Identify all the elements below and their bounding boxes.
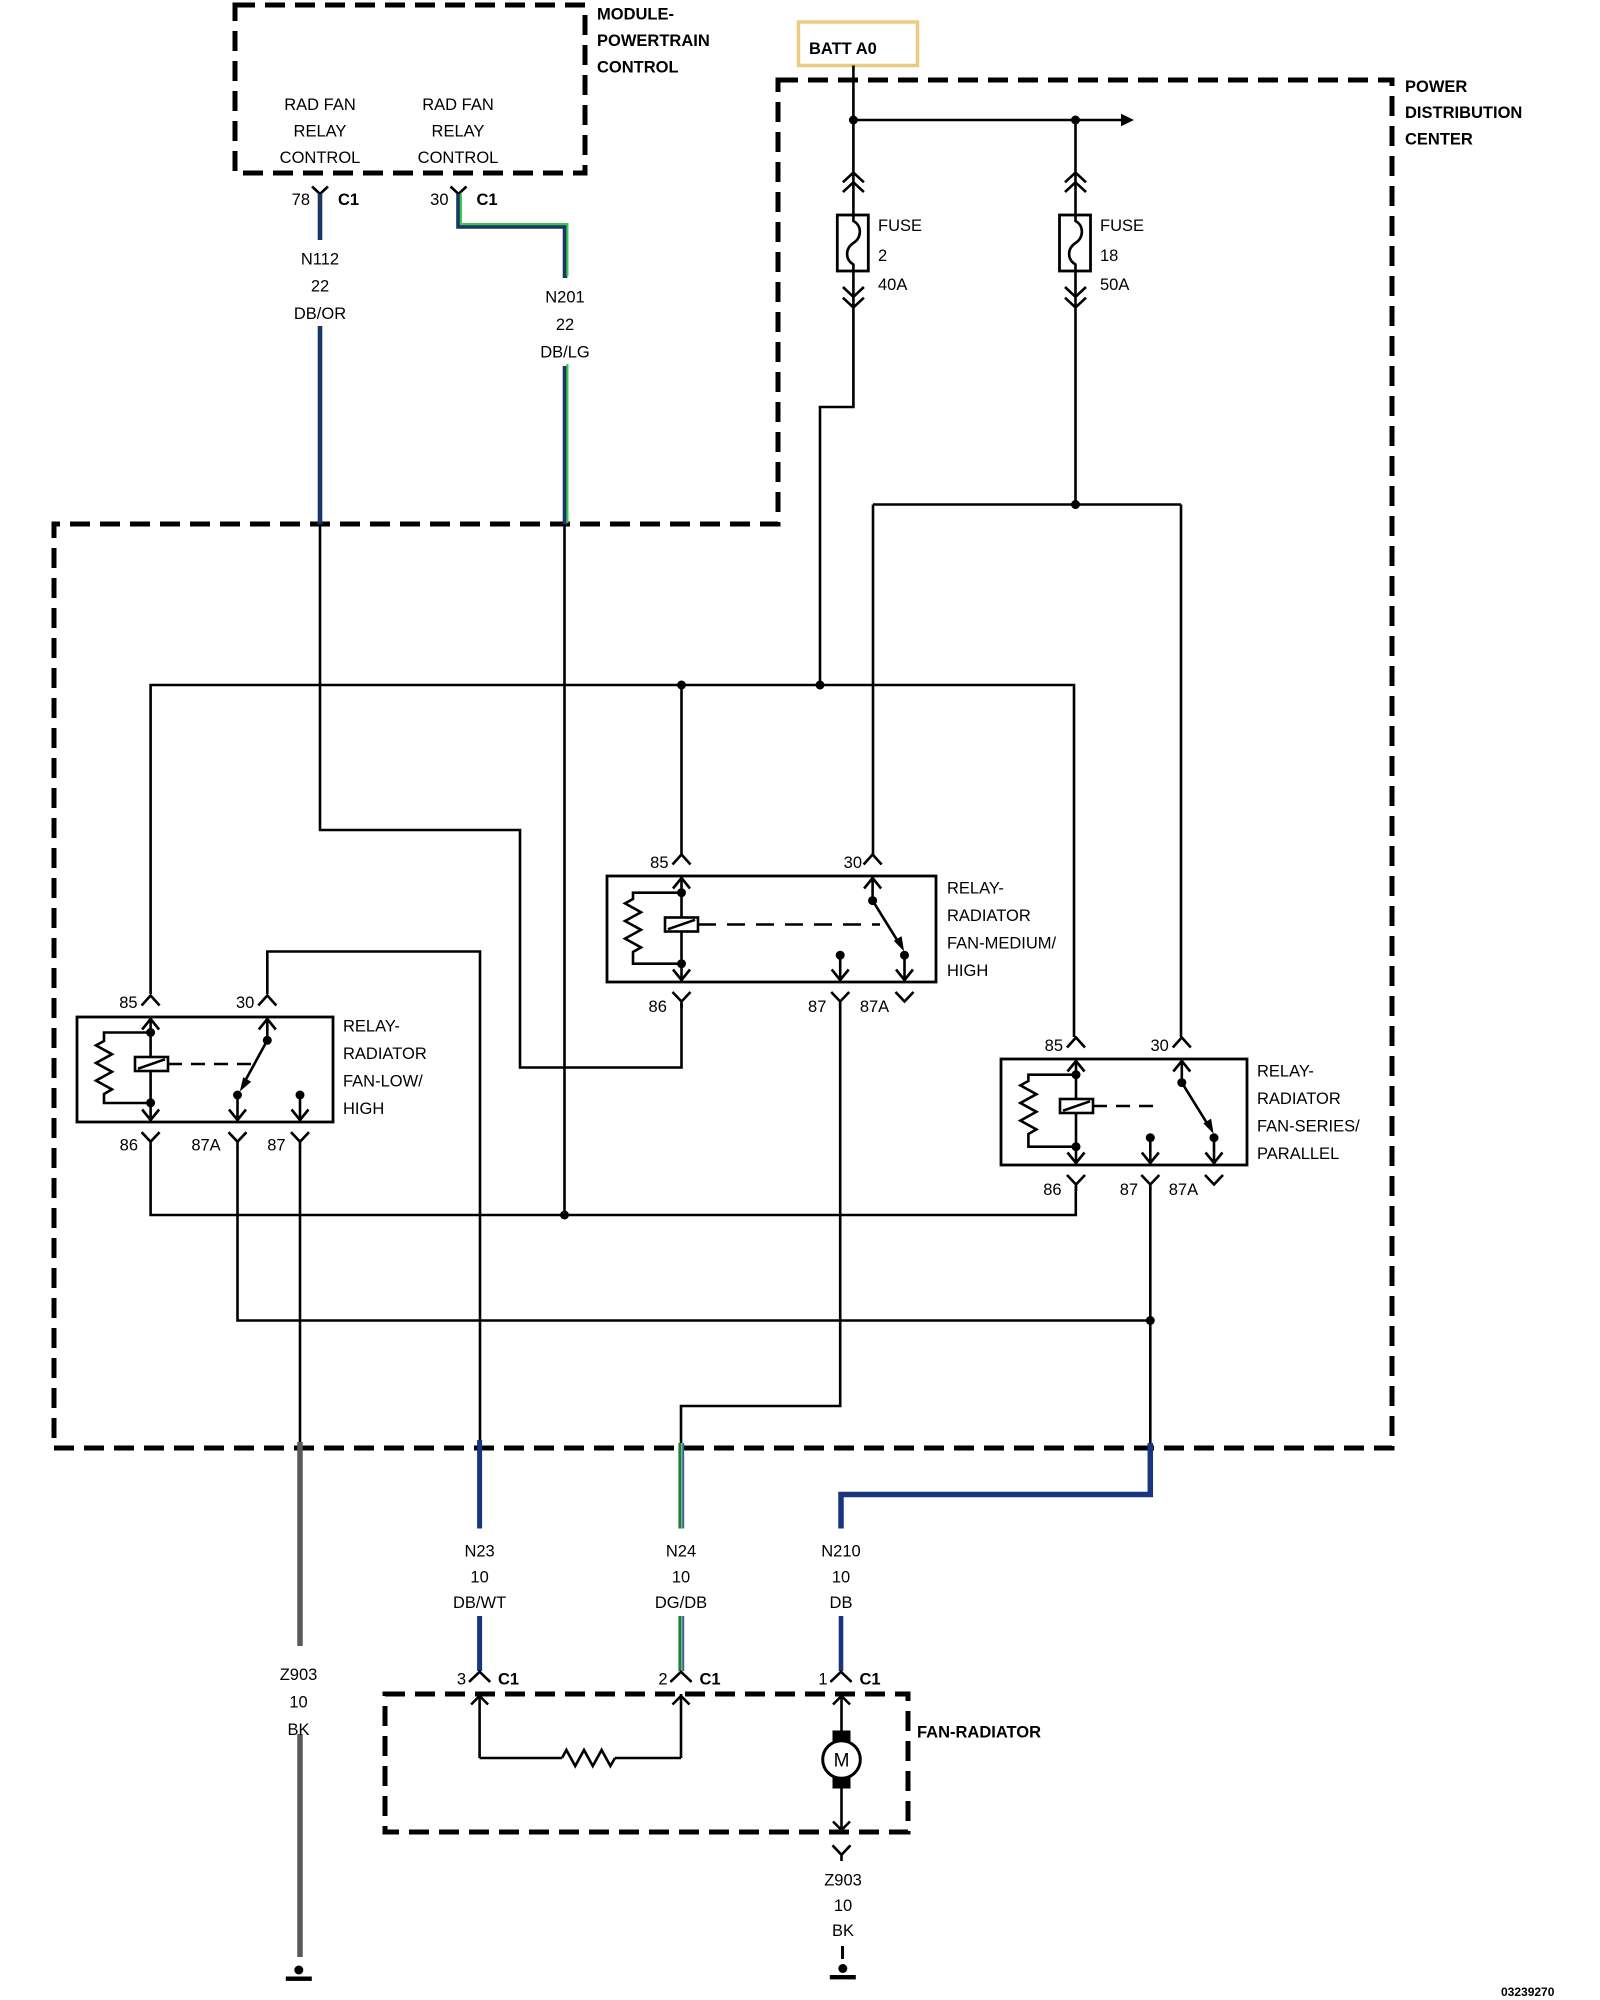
connector: in-line chevrons above fuse 2 — [843, 173, 864, 193]
pin 30 of K1 (connector chevron + label) — [236, 994, 276, 1012]
svg-text:N24: N24 — [666, 1542, 696, 1560]
svg-text:10: 10 — [834, 1897, 852, 1915]
pin 87 of K1 (connector chevron + label) — [267, 1132, 309, 1154]
wire N201 (PCM 30 to relay 86 bus), colored segment — [459, 194, 568, 525]
svg-text:CONTROL: CONTROL — [418, 149, 499, 167]
pin 86 of K2 (connector chevron + label) — [649, 992, 691, 1016]
wire: series relay 87 down to PDC edge — [1149, 1186, 1152, 1444]
label: N24 10 DG/DB — [655, 1542, 707, 1612]
pin 85 of K3 (connector chevron + label) — [1045, 1037, 1085, 1055]
svg-text:2: 2 — [878, 247, 887, 265]
node: K1 coil bottom dot — [146, 1098, 155, 1107]
svg-text:78: 78 — [292, 191, 310, 209]
node: junction dot fuse18/bus505 — [1071, 500, 1080, 509]
label: Z903 10 BK (left) — [280, 1666, 318, 1739]
node: junction dot bus685/medium85 — [677, 681, 686, 690]
node: K1 87A contact dot — [233, 1091, 242, 1100]
svg-text:10: 10 — [832, 1569, 850, 1587]
wire Z903 (low relay 87 to ground), gray segment — [297, 1442, 303, 1957]
fuse F2: 40A — [837, 215, 922, 294]
svg-text:18: 18 — [1100, 247, 1118, 265]
svg-text:C1: C1 — [700, 1671, 721, 1689]
wire N210 lower colored segment — [839, 1616, 844, 1671]
coil vertical of K1 — [149, 1017, 152, 1122]
svg-text:RAD FAN: RAD FAN — [422, 96, 494, 114]
svg-text:86: 86 — [1043, 1181, 1061, 1199]
pin 30 stub inside K2 — [871, 876, 874, 901]
svg-text:DISTRIBUTION: DISTRIBUTION — [1405, 104, 1522, 122]
svg-text:RELAY: RELAY — [432, 122, 485, 140]
pin 87 stub of K3 — [1149, 1138, 1152, 1165]
label: RAD FAN RELAY CONTROL (pin 30 function) — [418, 96, 499, 167]
pin 87A arrow at K2 box edge — [896, 970, 913, 981]
resistor in parallel with K2 coil — [625, 893, 682, 964]
svg-text:C1: C1 — [477, 191, 498, 209]
svg-text:RELAY: RELAY — [294, 122, 347, 140]
svg-text:CENTER: CENTER — [1405, 131, 1473, 149]
node: K3 common dot — [1177, 1078, 1186, 1087]
wire: battery feed vertical from BATT A0 to fuse 2 — [852, 66, 855, 216]
wire: fuse 18 drop from battery feed — [1074, 120, 1077, 215]
svg-text:Z903: Z903 — [824, 1871, 862, 1889]
svg-text:87A: 87A — [1169, 1181, 1198, 1199]
svg-text:DG/DB: DG/DB — [655, 1594, 707, 1612]
svg-text:RADIATOR: RADIATOR — [947, 907, 1031, 925]
module U1: powertrain control module dashed box — [235, 5, 585, 173]
switch arm of K2 (30 to 87A) — [873, 901, 905, 952]
pin 86 of K3 (connector chevron + label) — [1043, 1175, 1085, 1199]
svg-text:40A: 40A — [878, 276, 907, 294]
pin 30 of K3 (connector chevron + label) — [1150, 1037, 1190, 1055]
label: N112 22 DB/OR — [294, 251, 346, 324]
wire: low relay 87A over to series relay 87 (y=1320) — [238, 1147, 1151, 1321]
pin 85 arrow at K3 box edge — [1068, 1061, 1085, 1072]
svg-text:PARALLEL: PARALLEL — [1257, 1145, 1339, 1163]
svg-text:50A: 50A — [1100, 276, 1129, 294]
svg-text:85: 85 — [1045, 1037, 1063, 1055]
node: K3 coil bottom dot — [1072, 1142, 1081, 1151]
svg-text:C1: C1 — [338, 191, 359, 209]
pin 85 arrow at K1 box edge — [142, 1019, 159, 1030]
wire: coil feed bus y=685 (fuse 2 to relay 85 pins) — [151, 685, 1074, 1037]
node: junction dot N201/86-bus — [560, 1211, 569, 1220]
svg-text:85: 85 — [650, 854, 668, 872]
wire: medium relay 87 down-left to N24 — [681, 1003, 840, 1443]
svg-text:RELAY-: RELAY- — [947, 880, 1004, 898]
dashed actuator link of K3 — [1093, 1105, 1160, 1108]
pin 86 of K1 (connector chevron + label) — [120, 1132, 160, 1154]
coil vertical of K2 — [680, 876, 683, 982]
label: RELAY-RADIATOR FAN-SERIES/PARALLEL — [1257, 1063, 1360, 1164]
pin 87A stub of K2 — [903, 955, 906, 982]
switch arm of K1 (30 to 87A) — [240, 1040, 267, 1091]
node: junction dot bus685/fuse2 — [816, 681, 825, 690]
pin 86 arrow at K3 box edge — [1068, 1153, 1085, 1164]
svg-text:BATT A0: BATT A0 — [809, 40, 877, 58]
svg-text:N112: N112 — [301, 251, 339, 269]
ground G1 (left) — [286, 1966, 312, 1981]
svg-text:87: 87 — [808, 998, 826, 1016]
svg-text:HIGH: HIGH — [947, 962, 988, 980]
svg-text:POWER: POWER — [1405, 78, 1467, 96]
pin 87A arrow at K3 box edge — [1206, 1153, 1223, 1164]
connector below fan motor — [833, 1845, 851, 1861]
node: K1 common dot — [263, 1036, 272, 1045]
coil (winding box) of K2 — [665, 918, 698, 932]
node: junction dot 87A-line / series 87 — [1146, 1316, 1155, 1325]
wire N210 (series relay 87 / low 87A to fan pin 1), thick colored segment — [841, 1443, 1150, 1529]
svg-text:MODULE-: MODULE- — [597, 6, 674, 24]
svg-text:RADIATOR: RADIATOR — [1257, 1090, 1341, 1108]
svg-text:10: 10 — [470, 1569, 488, 1587]
node: K2 87 contact dot — [836, 951, 845, 960]
coil vertical of K3 — [1075, 1059, 1078, 1165]
pin 86 arrow at K2 box edge — [673, 970, 690, 981]
pin 87 stub of K2 — [839, 955, 842, 982]
node: K1 87 contact dot — [296, 1091, 305, 1100]
relay K2: RELAY-RADIATOR FAN-MEDIUM/HIGH box — [607, 876, 936, 982]
wire: N201 continuation inside PDC down to 86 bus — [563, 524, 566, 1215]
svg-text:CONTROL: CONTROL — [280, 149, 361, 167]
pin 87A of K2 (connector chevron, unconnected) — [860, 992, 914, 1016]
wire: fan internal horizontal to resistor — [480, 1757, 562, 1760]
wire: dashed stub to ground G2 — [841, 1946, 844, 1959]
pin 30 arrow at K2 box edge — [864, 878, 881, 889]
svg-text:POWERTRAIN: POWERTRAIN — [597, 32, 710, 50]
svg-text:HIGH: HIGH — [343, 1100, 384, 1118]
svg-text:N210: N210 — [821, 1542, 860, 1560]
node: K3 87 contact dot — [1146, 1133, 1155, 1142]
dashed actuator link of K1 — [168, 1063, 256, 1066]
pin 87 arrow at K1 box edge — [292, 1110, 309, 1121]
svg-text:2: 2 — [658, 1671, 667, 1689]
svg-text:86: 86 — [120, 1137, 138, 1155]
node: junction dot at battery feed / fuse 18 — [1071, 116, 1080, 125]
ground G2 (fan motor) — [830, 1964, 856, 1979]
svg-text:10: 10 — [672, 1569, 690, 1587]
svg-text:30: 30 — [430, 191, 448, 209]
pin 87A stub of K3 — [1213, 1138, 1216, 1165]
pin 86 arrow at K1 box edge — [142, 1110, 159, 1121]
svg-text:DB/WT: DB/WT — [453, 1594, 506, 1612]
svg-text:87: 87 — [1120, 1181, 1138, 1199]
wire: fan pin 2 internal riser with arrow — [673, 1694, 690, 1758]
pin 30 C1 connector of PCM — [430, 187, 497, 210]
pin 87A of K1 (connector chevron + label) — [191, 1132, 246, 1154]
pin 30 arrow at K1 box edge — [259, 1019, 276, 1030]
svg-text:DB: DB — [830, 1594, 853, 1612]
svg-text:DB/LG: DB/LG — [540, 343, 590, 361]
resistor in parallel with K1 coil — [96, 1033, 151, 1104]
resistor R1 (fan speed resistor) — [562, 1750, 615, 1766]
label: RAD FAN RELAY CONTROL (pin 78 function) — [280, 96, 361, 167]
pin 87A arrow at K1 box edge — [229, 1110, 246, 1121]
pin 30 stub inside K1 — [266, 1017, 269, 1040]
svg-text:RAD FAN: RAD FAN — [284, 96, 356, 114]
switch arm of K3 (30 to 87A) — [1182, 1083, 1214, 1134]
svg-text:87A: 87A — [191, 1137, 220, 1155]
svg-text:N23: N23 — [464, 1542, 494, 1560]
svg-text:DB/OR: DB/OR — [294, 305, 346, 323]
label: RELAY-RADIATOR FAN-LOW/HIGH — [343, 1018, 427, 1119]
wire: fuse 18 output down to contact bus — [1074, 271, 1077, 505]
label: MODULE-POWERTRAIN CONTROL — [597, 6, 710, 77]
pin 30 of K2 (connector chevron + label) — [844, 854, 882, 872]
wire: fan pin 3 internal drop with arrow — [471, 1694, 488, 1758]
wire N24 lower colored segment — [680, 1616, 683, 1671]
pin 30 stub inside K3 — [1181, 1059, 1184, 1083]
svg-text:FUSE: FUSE — [878, 217, 922, 235]
svg-text:FUSE: FUSE — [1100, 217, 1144, 235]
node BATT A0 feed box — [799, 22, 918, 66]
relay K1: RELAY-RADIATOR FAN-LOW/HIGH box — [77, 1017, 333, 1122]
pin 30 arrow at K3 box edge — [1173, 1061, 1190, 1072]
node: K2 87A contact dot — [900, 951, 909, 960]
resistor in parallel with K3 coil — [1020, 1075, 1076, 1147]
svg-text:22: 22 — [556, 316, 574, 334]
svg-text:85: 85 — [119, 994, 137, 1012]
wire: N112 continuation inside PDC to medium relay pin 86 — [320, 524, 682, 1068]
svg-text:10: 10 — [289, 1694, 307, 1712]
pin 87 arrow at K3 box edge — [1142, 1153, 1159, 1164]
svg-text:87: 87 — [267, 1137, 285, 1155]
wire N23 (low relay 30 to fan pin 3), upper colored segment — [477, 1440, 482, 1529]
pin 87 arrow at K2 box edge — [832, 970, 849, 981]
fuse F18: 50A — [1060, 215, 1145, 294]
label: RELAY-RADIATOR FAN-MEDIUM/HIGH — [947, 880, 1056, 981]
svg-text:03239270: 03239270 — [1501, 1985, 1555, 1999]
pin 87 of K2 (connector chevron + label) — [808, 992, 849, 1016]
label: N201 22 DB/LG — [540, 288, 590, 361]
pin 87A stub of K1 — [236, 1095, 239, 1122]
pin 3 C1 connector of fan — [457, 1671, 519, 1689]
motor M1: fan motor — [823, 1694, 861, 1832]
wire: low relay 30 up-over-down to N23 — [267, 952, 480, 1444]
svg-text:BK: BK — [832, 1922, 854, 1940]
wire: contact feed bus y=505 (fuse 18 to relay 30 pins) — [873, 505, 1181, 1038]
wire: branch bus685 down to relay medium 85 — [680, 685, 683, 856]
label: POWER DISTRIBUTION CENTER — [1405, 78, 1522, 149]
svg-text:86: 86 — [649, 998, 667, 1016]
node: junction dot at battery feed / fuse 2 — [849, 116, 858, 125]
node: K2 coil top dot — [677, 888, 686, 897]
dashed actuator link of K2 — [698, 923, 880, 926]
svg-text:Z903: Z903 — [280, 1666, 318, 1684]
svg-text:22: 22 — [311, 278, 329, 296]
pin 85 arrow at K2 box edge — [673, 878, 690, 889]
coil (winding box) of K3 — [1060, 1099, 1093, 1113]
wire N24 (medium relay 87 to fan pin 2), upper colored segment — [680, 1443, 683, 1529]
svg-text:RADIATOR: RADIATOR — [343, 1045, 427, 1063]
wire: fuse 2 output down-left to coil bus — [820, 271, 853, 685]
coil (winding box) of K1 — [135, 1057, 168, 1071]
pin 1 C1 connector of fan — [818, 1671, 880, 1689]
svg-text:30: 30 — [236, 994, 254, 1012]
relay K3: RELAY-RADIATOR FAN-SERIES/PARALLEL box — [1001, 1059, 1247, 1165]
label: N210 10 DB — [821, 1542, 860, 1612]
node: K2 coil bottom dot — [677, 959, 686, 968]
svg-text:1: 1 — [818, 1671, 827, 1689]
svg-text:C1: C1 — [498, 1671, 519, 1689]
wire N112 (PCM 78 to medium relay 86), colored segment — [318, 194, 323, 525]
svg-text:C1: C1 — [860, 1671, 881, 1689]
svg-text:87A: 87A — [860, 998, 889, 1016]
label: N23 10 DB/WT — [453, 1542, 506, 1612]
wire: relay 86 bus y=1215 (low relay 86 to series relay 86) — [151, 1147, 1076, 1215]
pin 85 of K2 (connector chevron + label) — [650, 854, 690, 872]
pin 87A of K3 (connector chevron, unconnected) — [1169, 1175, 1223, 1199]
connector: in-line chevrons below fuse 18 — [1065, 287, 1086, 308]
pin 2 C1 connector of fan — [658, 1671, 720, 1689]
connector: in-line chevrons above fuse 18 — [1065, 173, 1086, 193]
svg-text:30: 30 — [1150, 1037, 1168, 1055]
node: K2 common dot — [868, 896, 877, 905]
pin 78 C1 connector of PCM — [292, 187, 359, 210]
wire: low relay 87 down to PDC edge — [299, 1147, 302, 1443]
pin 87 of K3 (connector chevron + label) — [1120, 1175, 1160, 1199]
svg-text:FAN-RADIATOR: FAN-RADIATOR — [917, 1724, 1041, 1742]
svg-text:BK: BK — [287, 1721, 309, 1739]
svg-text:RELAY-: RELAY- — [343, 1018, 400, 1036]
node: K3 87A contact dot — [1210, 1133, 1219, 1142]
node: K1 coil top dot — [146, 1028, 155, 1037]
wire: resistor to fan pin 2 riser — [615, 1757, 681, 1760]
svg-text:FAN-SERIES/: FAN-SERIES/ — [1257, 1118, 1360, 1136]
pin 85 of K1 (connector chevron + label) — [119, 994, 159, 1012]
svg-text:3: 3 — [457, 1671, 466, 1689]
wire N23 lower colored segment — [477, 1616, 482, 1671]
power distribution center dashed border (L-shape) — [54, 80, 1392, 1448]
svg-text:FAN-LOW/: FAN-LOW/ — [343, 1073, 423, 1091]
wire: battery feed horizontal with arrow — [853, 114, 1134, 126]
label: Z903 10 BK (right) — [824, 1871, 862, 1940]
svg-text:30: 30 — [844, 854, 862, 872]
svg-text:FAN-MEDIUM/: FAN-MEDIUM/ — [947, 935, 1056, 953]
svg-text:RELAY-: RELAY- — [1257, 1063, 1314, 1081]
svg-text:N201: N201 — [545, 288, 584, 306]
pin 87 stub of K1 — [299, 1095, 302, 1122]
node: K3 coil top dot — [1072, 1070, 1081, 1079]
module: FAN-RADIATOR dashed box — [385, 1694, 908, 1832]
connector: in-line chevrons below fuse 2 — [843, 287, 864, 308]
svg-text:M: M — [834, 1751, 850, 1772]
svg-text:CONTROL: CONTROL — [597, 59, 679, 77]
